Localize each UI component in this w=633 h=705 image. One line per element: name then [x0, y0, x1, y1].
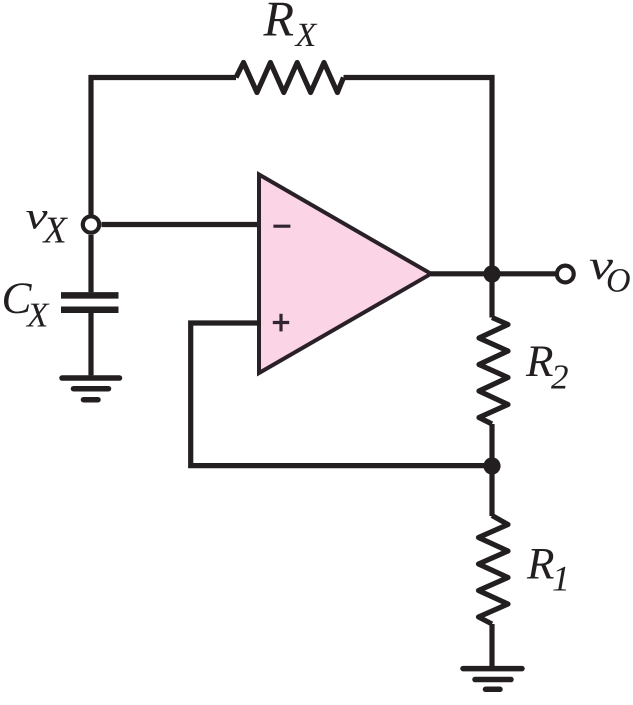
wire: junction down to R2 [489, 274, 494, 318]
svg-text:X: X [25, 296, 50, 335]
wire: vX to capacitor [88, 235, 93, 292]
svg-text:O: O [606, 263, 631, 300]
wire: R2 to R1 through junction [489, 424, 494, 516]
resistor R1 [479, 516, 509, 625]
junction node at feedback [483, 457, 500, 474]
ground (left) [62, 378, 120, 400]
wire: capacitor to ground [88, 313, 93, 375]
capacitor CX [61, 292, 119, 299]
wire: inverting input [102, 222, 262, 227]
op-amp minus sign [273, 225, 290, 228]
svg-text:R: R [525, 336, 554, 386]
svg-text:2: 2 [551, 358, 569, 397]
op-amp plus sign [273, 314, 289, 332]
terminal vO circle [557, 266, 574, 283]
wire: non-inverting input, down and across to junction [191, 323, 492, 466]
svg-text:1: 1 [552, 559, 570, 599]
wire: left vertical + top-left horizontal [91, 78, 236, 215]
op-amp U1 [259, 175, 431, 374]
junction node at output [483, 265, 500, 282]
wire: op-amp output to vO [431, 271, 555, 276]
svg-text:X: X [42, 210, 69, 252]
wire: R1 to ground [489, 624, 494, 667]
resistor RX [236, 63, 344, 93]
svg-text:X: X [294, 17, 318, 54]
wire: top-right horizontal + right vertical [344, 78, 493, 275]
svg-text:R: R [263, 0, 295, 47]
svg-text:R: R [526, 539, 555, 589]
resistor R2 [479, 318, 508, 425]
ground (bottom) [463, 669, 522, 690]
node vX terminal circle [83, 216, 99, 232]
